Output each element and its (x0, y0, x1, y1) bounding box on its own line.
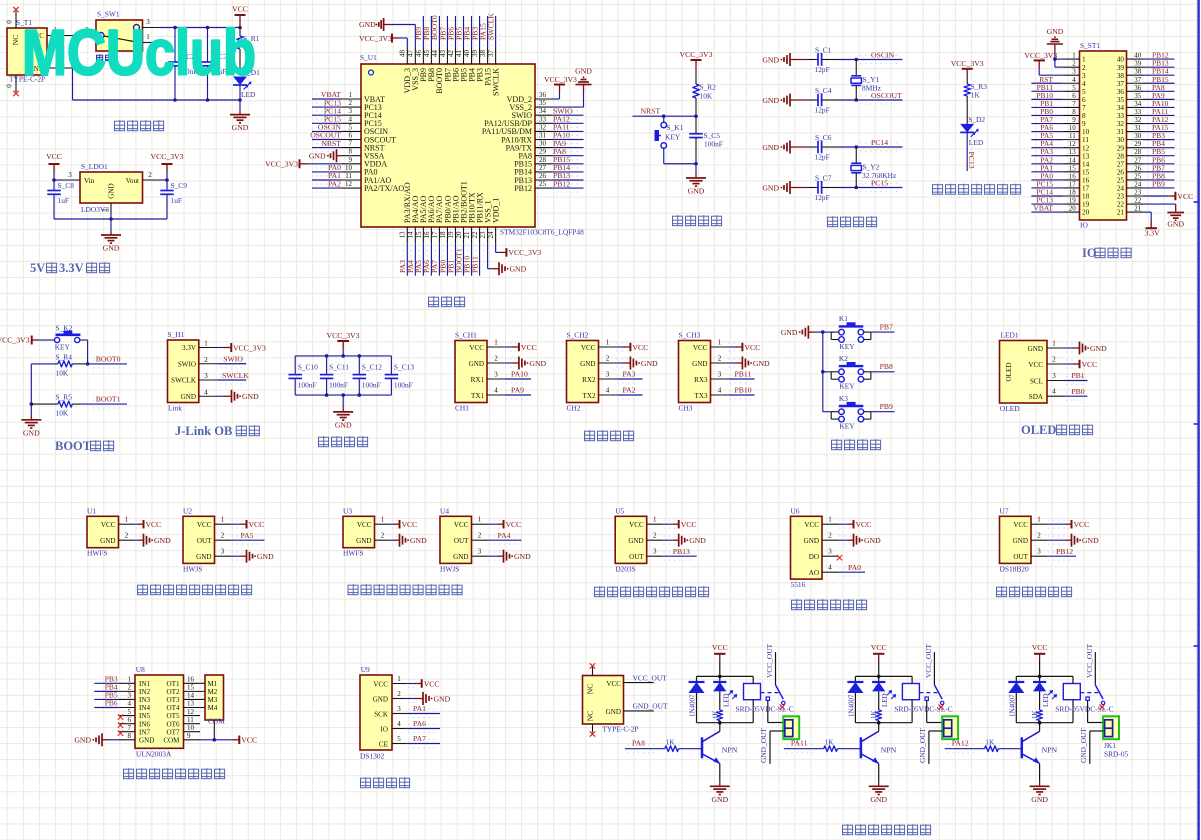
net label BOOT1 below U1 (454, 243, 467, 276)
pin 20 PB2/BOOT1 of U1 (455, 181, 468, 243)
net label PB7 at K1 (871, 322, 895, 332)
net label PC13 at S_ST1 pin 19 (1031, 196, 1063, 205)
pin 27 of S_ST1 (1117, 156, 1143, 168)
pin 21 of S_ST1 (1117, 205, 1143, 217)
connector TYPE-C-2P body (relay power) (583, 676, 639, 734)
wire GND to pins 1 and 2 of S_ST1 (1055, 53, 1063, 67)
wire VSS_2 to GND (552, 85, 584, 108)
pin 4 SDA of LED1 (1029, 388, 1065, 401)
svg-text:1K: 1K (666, 738, 676, 747)
pin 1 VCC of U4 (454, 516, 488, 529)
svg-text:VCC: VCC (1013, 521, 1028, 529)
junction top rail channel 3 (1038, 675, 1042, 679)
power port VCC at U5 (663, 520, 697, 529)
svg-text:23: 23 (1134, 189, 1142, 197)
pin 3 GND of U4 (453, 548, 487, 561)
svg-text:27: 27 (1134, 156, 1142, 164)
ground GND at U6 (838, 534, 881, 547)
no-connect at U6 pin 3 (837, 555, 842, 560)
svg-text:S_ST1: S_ST1 (1080, 41, 1100, 50)
svg-text:OUT: OUT (197, 537, 212, 545)
resistor 1K base channel 2 (824, 738, 861, 752)
svg-text:S_C8: S_C8 (58, 181, 75, 190)
svg-text:PA2/TX/AO: PA2/TX/AO (364, 184, 404, 193)
pin 2 GND of U7 (1013, 532, 1047, 545)
net label PB12 at U7 (1047, 547, 1076, 560)
net label PA2 at S_CH2 (616, 386, 642, 399)
svg-text:VCC: VCC (46, 152, 62, 161)
pin 2 PC13 of U1 (342, 99, 382, 112)
net label PA2 at S_ST1 pin 14 (1031, 155, 1063, 164)
svg-text:24: 24 (487, 231, 495, 239)
pin 2 GND of U1 (100, 532, 134, 545)
svg-text:GND: GND (410, 536, 427, 545)
svg-text:3: 3 (1052, 372, 1056, 380)
relay switch blade channel 2 (925, 685, 944, 705)
pin 37 of S_ST1 (1117, 76, 1143, 88)
svg-text:STM32F103C8T6_LQFP48: STM32F103C8T6_LQFP48 (500, 228, 584, 237)
svg-text:18: 18 (439, 231, 447, 239)
net label PA4 below U1 (406, 243, 419, 276)
svg-text:BOOT: BOOT (55, 439, 92, 453)
push button S_K2 KEY (39, 324, 88, 364)
net label PB5 at S_ST1 pin 28 (1143, 147, 1175, 156)
svg-text:GND: GND (335, 420, 352, 429)
title 滤波电路 (319, 436, 368, 447)
svg-text:1: 1 (478, 516, 482, 524)
svg-text:11: 11 (1082, 136, 1089, 144)
pin 31 PA10/RX of U1 (501, 132, 552, 145)
svg-text:13: 13 (399, 231, 407, 239)
svg-text:1: 1 (653, 516, 657, 524)
net label SWCLK at S_H1 (218, 371, 250, 384)
svg-text:VCC_OUT: VCC_OUT (1085, 643, 1094, 678)
LED relay channel 3 (1033, 676, 1057, 710)
svg-text:U3: U3 (343, 507, 352, 516)
ground GND channel 1 (710, 786, 730, 804)
transistor NPN channel 3 (1022, 723, 1058, 764)
svg-text:38: 38 (1134, 68, 1142, 76)
resistor S_R4 10K (54, 353, 88, 378)
pin 12 PA2/TX/AO of U1 (342, 180, 404, 193)
pin 14 of S_ST1 (1063, 156, 1090, 168)
title 分离式红外开关模块 right (348, 584, 462, 595)
pin 23 VSS_1 of U1 (479, 200, 492, 243)
svg-text:NPN: NPN (722, 746, 738, 755)
svg-text:PB11: PB11 (735, 370, 752, 379)
title J-Link OB接口 (175, 424, 259, 438)
svg-text:3: 3 (1082, 72, 1086, 80)
svg-text:U5: U5 (615, 507, 624, 516)
junction crystal row 3 (854, 145, 858, 149)
svg-text:GND: GND (762, 55, 779, 64)
pin 1 3.3V of S_H1 (182, 340, 218, 353)
net label PB8 at K2 (871, 362, 895, 372)
net label PB10 below U1 (462, 243, 475, 276)
svg-text:S_U1: S_U1 (360, 53, 377, 62)
svg-text:37: 37 (487, 50, 495, 58)
net label PA11 right of U1 (552, 123, 584, 136)
svg-text:26: 26 (1117, 168, 1125, 176)
svg-text:PA3: PA3 (623, 370, 636, 379)
svg-text:2: 2 (653, 532, 657, 540)
capacitor S_C5 100nF (689, 116, 723, 164)
net label PB10 at S_CH3 (728, 386, 754, 399)
net label PB4 above U1 (462, 16, 475, 48)
svg-text:CE: CE (379, 740, 388, 748)
svg-text:2: 2 (349, 99, 353, 107)
svg-text:20: 20 (1082, 209, 1090, 217)
title IO拓展口 (1082, 246, 1131, 260)
svg-text:40: 40 (1134, 52, 1142, 60)
pin 4 TX3 of S_CH3 (694, 387, 728, 400)
wire VDD_2 to VCC_3V3 (552, 85, 560, 100)
net label SWCLK above U1 (486, 13, 499, 48)
svg-text:VCC_3V3: VCC_3V3 (1024, 51, 1057, 60)
title BOOT电路 (55, 439, 114, 453)
svg-text:VCC: VCC (357, 521, 372, 529)
net label PA9 at S_ST1 pin 35 (1143, 91, 1175, 100)
push button K2 KEY (831, 354, 871, 391)
pin 46 PB9 of U1 (415, 48, 428, 82)
module U7 body (DS18B20) (1000, 507, 1032, 574)
svg-text:2: 2 (606, 355, 610, 363)
wire emitter to ground channel 3 (1039, 763, 1041, 786)
svg-text:SRD-05VDC-SL-C: SRD-05VDC-SL-C (894, 705, 952, 714)
svg-text:GND: GND (1028, 345, 1043, 353)
net label PB9 at K3 (871, 402, 895, 412)
svg-text:VCC: VCC (632, 343, 648, 352)
svg-text:4: 4 (128, 700, 132, 708)
svg-text:VCC: VCC (1177, 192, 1193, 201)
diode 1N4007 channel 1 (689, 676, 705, 722)
svg-text:RX2: RX2 (582, 376, 596, 384)
net label PA1 at S_ST1 pin 15 (1031, 163, 1063, 172)
svg-text:29: 29 (1134, 140, 1142, 148)
svg-text:1: 1 (606, 339, 610, 347)
power port VCC at S_CH3 (728, 343, 760, 352)
pin 14 OT3 of U8 (166, 692, 205, 704)
svg-text:1K: 1K (824, 738, 834, 747)
label 开关 under switch (97, 54, 112, 61)
resistor S_R3 1K (964, 76, 987, 124)
net label PB13 right of U1 (552, 171, 584, 184)
power port VCC at U9 (407, 679, 440, 688)
svg-text:5: 5 (1072, 84, 1076, 92)
svg-text:GND: GND (529, 359, 546, 368)
svg-text:1K: 1K (1031, 710, 1039, 719)
svg-text:VCC: VCC (402, 520, 418, 529)
pin 1 VCC of U7 (1013, 516, 1047, 529)
no-connect at U8 pin 6 (118, 722, 123, 727)
svg-text:10: 10 (187, 724, 195, 732)
net label PC13 vertical (967, 132, 976, 171)
svg-text:TX2: TX2 (582, 392, 595, 400)
power port VCC at U3 (391, 520, 418, 529)
svg-text:5516: 5516 (791, 580, 806, 589)
svg-text:GND: GND (711, 795, 728, 804)
svg-text:PB7: PB7 (880, 322, 893, 331)
svg-text:23: 23 (1117, 193, 1125, 201)
svg-text:KEY: KEY (55, 343, 71, 352)
svg-text:GND: GND (103, 244, 120, 253)
svg-text:GND: GND (510, 265, 527, 274)
net label PA1 at U9 (407, 704, 440, 718)
svg-text:3: 3 (1072, 68, 1076, 76)
pin 2 GND of S_CH1 (469, 355, 505, 368)
svg-text:2: 2 (221, 532, 225, 540)
junction crystal row 2 (854, 98, 858, 102)
junction filter top C11 (325, 354, 329, 358)
wire top rail channel 1 (697, 675, 754, 677)
net label GND_OUT at TYPE-C-2P (624, 702, 668, 711)
wire top rail VCC (160, 27, 240, 29)
svg-text:1: 1 (349, 91, 353, 99)
net label PB13 at U5 (663, 547, 697, 560)
power port VCC at U4 (488, 520, 522, 529)
wire relay NO contact to connector channel 1 (768, 700, 784, 722)
svg-text:M3: M3 (208, 696, 218, 704)
svg-text:PA9: PA9 (511, 386, 524, 395)
svg-text:29: 29 (539, 148, 547, 156)
svg-text:27: 27 (1117, 160, 1125, 168)
power port VCC_3V3 reset (680, 50, 713, 69)
pin 3 PC14 of U1 (342, 107, 382, 120)
svg-text:GND: GND (1090, 344, 1107, 353)
junction key bus K1 (821, 330, 825, 334)
svg-text:KEY: KEY (839, 342, 855, 351)
connector S_CH2 body (567, 331, 599, 413)
pin 1 VCC of S_CH2 (581, 339, 616, 352)
junction LDO ground node (109, 217, 113, 221)
ground GND crystal row 2 (762, 94, 806, 107)
pin 2 GND of S_CH3 (692, 355, 728, 368)
svg-text:M2: M2 (208, 688, 218, 696)
svg-text:10: 10 (345, 164, 353, 172)
svg-text:OT5: OT5 (166, 712, 179, 720)
wire VCC_3V3 to VDD_3 pin 48 (398, 38, 407, 48)
pin 1 VCC of U5 (629, 516, 663, 529)
net label PA12 at S_ST1 pin 32 (1143, 115, 1175, 124)
svg-text:4: 4 (204, 388, 208, 396)
module U1 body (HWFS) (87, 507, 119, 558)
svg-text:IN6: IN6 (139, 720, 150, 728)
svg-text:7: 7 (349, 140, 353, 148)
resistor S_R2 10K (693, 69, 716, 116)
power port VCC_3V3 BOOT (0, 336, 39, 345)
power port VCC relay channel 3 (1032, 643, 1048, 661)
pin 39 PB3 of U1 (471, 48, 484, 82)
power port VCC at U1 (135, 520, 162, 529)
power port VCC_3V3 right of U1 (544, 75, 577, 85)
svg-text:VCC_OUT: VCC_OUT (765, 643, 774, 678)
net label PA3 below U1 (398, 243, 411, 276)
crystal S_Y1 8MHz (851, 60, 882, 101)
pin 15 PA5/AO of U1 (415, 196, 428, 244)
svg-text:17: 17 (1069, 180, 1077, 188)
net label OSCIN left of U1 (312, 123, 342, 136)
svg-text:36: 36 (539, 91, 547, 99)
ground GND top of S_ST1 (1047, 27, 1064, 53)
svg-text:SCK: SCK (374, 710, 389, 718)
svg-text:VCC_3V3: VCC_3V3 (0, 336, 30, 345)
svg-text:1N4007: 1N4007 (689, 694, 697, 717)
svg-text:20: 20 (1069, 205, 1077, 213)
power port VCC at U2 (231, 520, 265, 529)
pin 0 top of S_T1 with no-connect (6, 7, 19, 28)
svg-text:100nF: 100nF (298, 381, 317, 390)
pin 5 CE of U9 (379, 735, 407, 748)
pin 16 PA6/AO of U1 (423, 196, 436, 244)
svg-text:HWFS: HWFS (87, 549, 108, 558)
net label PB8 at S_ST1 pin 25 (1143, 171, 1175, 180)
svg-text:41: 41 (455, 50, 463, 58)
svg-text:3: 3 (606, 371, 610, 379)
svg-text:S_K1: S_K1 (667, 123, 684, 132)
svg-text:VCC_3V3: VCC_3V3 (327, 331, 360, 340)
svg-text:34: 34 (539, 107, 547, 115)
power port VCC at LED1 (1065, 360, 1098, 369)
svg-text:DS1302: DS1302 (360, 752, 385, 761)
pin 7 IN7 of U8 (118, 724, 150, 736)
junction filter bottom GND stem (341, 393, 345, 397)
pin 37 SWCLK of U1 (487, 48, 500, 97)
pin 1 VCC of U3 (357, 516, 391, 529)
capacitor S_C3 10uF (201, 28, 228, 101)
svg-text:35: 35 (539, 99, 547, 107)
svg-text:34: 34 (1134, 100, 1142, 108)
svg-text:GND: GND (514, 552, 531, 561)
pin 2 GND of S_CH2 (580, 355, 616, 368)
svg-text:3.3V: 3.3V (182, 344, 197, 352)
svg-text:PB6: PB6 (105, 699, 118, 708)
svg-text:PA0: PA0 (848, 563, 861, 572)
svg-text:SRD-05VDC-SL-C: SRD-05VDC-SL-C (1055, 705, 1113, 714)
pin 31 of S_ST1 (1117, 124, 1143, 136)
ground GND crystal row 1 (762, 53, 806, 66)
ground GND at U8 pin 8 (74, 733, 118, 746)
svg-text:M1: M1 (208, 680, 218, 688)
svg-text:PA5: PA5 (241, 531, 254, 540)
net label PA0 at S_ST1 pin 16 (1031, 171, 1063, 180)
svg-text:VCC: VCC (249, 520, 265, 529)
net label PB6 at S_ST1 pin 27 (1143, 155, 1175, 164)
pin 20 of S_ST1 (1063, 205, 1090, 217)
net label PA15 above U1 (478, 16, 491, 48)
net label PA4 at S_ST1 pin 12 (1031, 139, 1063, 148)
net label PB15 at S_ST1 pin 37 (1143, 75, 1175, 84)
pin 4 IN4 of U8 (118, 700, 150, 712)
junction key bus K2 (821, 370, 825, 374)
junction reset ground node (694, 162, 698, 166)
svg-text:31: 31 (1134, 124, 1142, 132)
net label PA11 at S_ST1 pin 33 (1143, 107, 1175, 116)
capacitor S_C1 12pF (806, 46, 837, 75)
ground GND at S_H1 pin4 (218, 390, 260, 403)
svg-text:RX1: RX1 (471, 376, 485, 384)
svg-text:GND: GND (804, 537, 819, 545)
svg-text:GND: GND (692, 360, 707, 368)
svg-text:100nF: 100nF (704, 140, 723, 149)
svg-text:2: 2 (128, 684, 132, 692)
svg-text:PB0: PB0 (1071, 387, 1084, 396)
pin top of TYPE-C-2P with no-connect (590, 663, 595, 675)
pin 16 of S_ST1 (1063, 172, 1090, 184)
net label VCC_OUT at TYPE-C-2P (624, 673, 668, 682)
svg-text:27: 27 (539, 164, 547, 172)
relay switch dashed link channel 1 (761, 692, 779, 694)
net label PB10 at S_ST1 pin 6 (1031, 91, 1063, 100)
net label PB0 at LED1 (1065, 387, 1088, 400)
svg-text:33: 33 (1117, 112, 1125, 120)
pin 26 of S_ST1 (1117, 164, 1143, 176)
ground GND filter (333, 412, 353, 430)
pin 38 of S_ST1 (1117, 68, 1143, 80)
svg-text:S_C6: S_C6 (815, 133, 832, 142)
title 光照检测模块 (792, 599, 867, 610)
svg-text:GND: GND (356, 537, 371, 545)
pin 2 of LDO (143, 171, 168, 180)
net label PB4 at U8 pin 2 (94, 683, 118, 692)
svg-text:1K: 1K (971, 91, 981, 100)
pin 28 PB15 of U1 (514, 156, 552, 169)
pin 5 OSCIN of U1 (342, 123, 388, 136)
net label PB14 right of U1 (552, 163, 584, 176)
pin 1 VCC of S_T1 (47, 26, 75, 36)
svg-text:30: 30 (539, 140, 547, 148)
svg-text:18: 18 (1082, 193, 1090, 201)
relay switch blade channel 1 (766, 685, 785, 705)
svg-text:19: 19 (1082, 201, 1090, 209)
pin 18 of S_ST1 (1063, 189, 1090, 201)
svg-text:GND: GND (762, 183, 779, 192)
module U2 body (HWJS) (183, 507, 215, 574)
svg-text:GND_OUT: GND_OUT (633, 702, 668, 711)
resistor 1K under LED channel 1 (711, 710, 722, 723)
pin 1 VCC of U1 (101, 516, 135, 529)
svg-text:VCC_OUT: VCC_OUT (924, 643, 933, 678)
svg-text:14: 14 (407, 231, 415, 239)
diode 1N4007 channel 2 (847, 676, 863, 722)
pin 2 OUT of U4 (454, 532, 488, 545)
junction NRST at key branch (662, 114, 666, 118)
power port VCC_3V3 at S_H1 pin1 (218, 343, 267, 352)
svg-text:4: 4 (397, 720, 401, 728)
transistor NPN channel 1 (702, 723, 738, 764)
svg-text:KEY: KEY (839, 382, 855, 391)
module U3 body (HWFS) (343, 507, 375, 558)
svg-text:VCC_3V3: VCC_3V3 (233, 343, 266, 352)
net label PB6 above U1 (446, 16, 459, 48)
pin 5 of S_ST1 (1063, 84, 1086, 96)
svg-text:12pF: 12pF (815, 193, 830, 202)
pin 2 GND of U3 (356, 532, 390, 545)
pin 30 of S_ST1 (1117, 132, 1143, 144)
junction top rail at VCC (238, 26, 242, 30)
svg-text:PA6: PA6 (413, 719, 426, 728)
ground GND at U3 (391, 534, 428, 547)
svg-text:S_C7: S_C7 (815, 174, 832, 183)
relay coil SRD-05VDC-SL-C channel 2 (894, 676, 952, 722)
wire top rail channel 2 (855, 675, 912, 677)
svg-text:OT3: OT3 (166, 696, 179, 704)
svg-text:9: 9 (1082, 120, 1086, 128)
svg-text:22: 22 (471, 231, 479, 239)
svg-text:PB12: PB12 (1056, 547, 1073, 556)
capacitor S_C9 1uF (160, 180, 187, 219)
wire top rail channel 3 (1016, 675, 1073, 677)
resistor 1K base channel 1 (665, 738, 702, 752)
